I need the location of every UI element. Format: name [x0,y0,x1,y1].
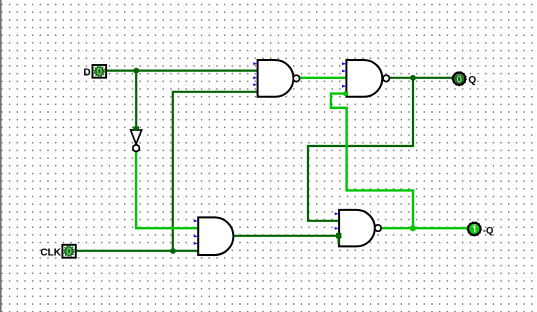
U1 input pin mark 3 [253,76,257,79]
wire: CLK net riser to U1 input 5 [173,92,259,251]
U4 input pin mark 1 [335,212,339,215]
wire: D net vertical drop to inverter input [135,71,137,128]
output lamp Q (value 0) [453,73,465,85]
U4 input pin mark 3 [335,227,339,230]
NAND gate U4 body [339,210,375,247]
wire: stub down to U4 input 5 [338,236,340,244]
NAND gate U4 output bubble [375,225,381,231]
NAND gate U1 output bubble [293,75,299,81]
inverter output bubble [133,145,140,152]
U1 input pin mark 4 [253,83,257,86]
AND gate U3 body [198,217,233,255]
U3 input pin mark 1 [194,220,198,223]
wire: U1 output to U2 input 3 (high level) [300,77,347,79]
U2 input pin mark 2 [342,70,346,73]
U1 input pin mark 1 [253,62,257,65]
junction: CLK net T-junction [170,248,176,254]
svg-text:-Q: -Q [483,225,494,236]
svg-text:Q: Q [468,75,476,86]
wire: inverter output to U3 input 2 (high level) [136,152,199,229]
input switch CLK box [62,245,75,258]
wire: D net horizontal (D switch to U1 input 2) [107,69,259,71]
NAND gate U1 body [258,60,294,97]
svg-text:CLK: CLK [40,248,61,259]
NAND gate U2 body [346,60,382,97]
wire: stub to U4 input 5 (over body edge) [338,236,340,244]
wire: -Q feedback to U2 input 5 (high level) [331,94,413,229]
inverter (NOT) pointing down [131,130,142,144]
U3 input pin mark 3 [194,235,198,238]
junction square: U3 output at U4 input 4 pin [336,233,341,239]
junction: D net T-junction [133,68,139,74]
U2 input pin mark 1 [342,62,346,65]
junction: -Q net T-junction [410,225,416,231]
U2 input pin mark 4 [342,85,346,88]
junction: Q net T-junction [410,75,416,81]
U3 input pin mark 4 [194,242,198,245]
wire: U3 output net to U4 input 4 [233,235,339,237]
pin square: inverter input pin [133,126,139,130]
wire: Q feedback (U2 out to U4 input 2) [308,78,413,221]
window left border [0,0,2,312]
input switch D box [93,65,107,78]
pin square: -Q feedback at U2 input 5 pin [344,92,348,96]
output lamp -Q (value 1) [468,223,480,235]
wire: CLK net horizontal (CLK switch to U3 input 5) [76,250,200,252]
wire: U2 output Q net to indicator [389,77,453,79]
svg-text:D: D [83,67,90,78]
switch CLK icon (value 0) [64,246,74,256]
NAND gate U2 output bubble [383,75,389,81]
wire: U4 output -Q net to indicator (high level) [381,227,467,229]
switch D icon (value 0) [94,66,104,76]
